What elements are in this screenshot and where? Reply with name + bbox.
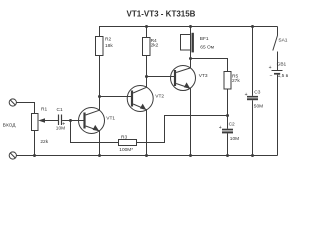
title [127, 9, 196, 18]
label VT3 [199, 73, 208, 79]
node ВХОД label [3, 123, 17, 129]
label C1 polarity + [62, 122, 65, 128]
switch SA1 [273, 27, 278, 71]
transistor VT2 [127, 56, 153, 156]
wire VT1 collector to VT2 base [100, 96, 132, 98]
svg-text:SA1: SA1 [278, 37, 287, 43]
svg-text:+: + [269, 65, 272, 71]
svg-text:1,5 в: 1,5 в [278, 73, 289, 79]
wire bias branch down to R3 [71, 121, 119, 143]
label C2 [229, 122, 235, 128]
wire bottom ground rail [16, 155, 277, 157]
resistor R1 (potentiometer) [32, 114, 59, 156]
label C3 polarity + [245, 92, 248, 98]
svg-text:+: + [62, 122, 65, 128]
svg-text:22k: 22k [40, 139, 48, 145]
label C3 [254, 89, 260, 95]
node ground rail junction VT1 emitter [98, 154, 101, 157]
label R5 [232, 74, 238, 80]
resistor R2 [96, 27, 104, 97]
svg-text:VT1-VT3 - KT315B: VT1-VT3 - KT315B [127, 9, 196, 18]
node ground rail junction C3 [251, 154, 254, 157]
svg-text:18k: 18k [105, 43, 113, 49]
svg-text:C3: C3 [254, 89, 260, 95]
svg-text:ВХОД: ВХОД [3, 123, 17, 129]
svg-text:VT2: VT2 [155, 94, 164, 100]
label C1 [57, 107, 63, 113]
svg-text:C1: C1 [57, 107, 63, 113]
node R5 / C2 / R3 feedback junction [226, 114, 229, 117]
svg-text:2k2: 2k2 [151, 42, 159, 48]
svg-text:+: + [245, 92, 248, 98]
node ground rail junction VT2 emitter [145, 154, 148, 157]
label GB1 [277, 61, 287, 67]
svg-text:10М: 10М [230, 136, 239, 142]
svg-text:65 Ом: 65 Ом [200, 45, 214, 51]
resistor R5 [224, 72, 231, 116]
node ground rail junction R1 [33, 154, 36, 157]
label 100М* [119, 147, 133, 153]
node VT2 collector / VT3 base junction [145, 75, 148, 78]
resistor R3 [119, 140, 137, 146]
label VT2 [155, 94, 164, 100]
svg-text:R2: R2 [105, 37, 111, 43]
wire C1 to VT1 base [62, 120, 83, 122]
battery GB1 [272, 71, 283, 156]
label 10М [56, 125, 65, 131]
svg-text:+: + [219, 125, 222, 131]
label R3 [121, 135, 127, 141]
svg-text:BF1: BF1 [200, 36, 209, 42]
label 22k [40, 139, 48, 145]
label VT1 [106, 116, 115, 122]
resistor R4 [143, 27, 151, 56]
label BF1 [200, 36, 209, 42]
svg-text:C2: C2 [229, 122, 235, 128]
node VT1 collector / VT2 base junction [98, 95, 101, 98]
svg-text:VT3: VT3 [199, 73, 208, 79]
label 2k2 [151, 42, 159, 48]
wire C3 branch from top rail [252, 27, 254, 96]
input terminal bottom [9, 152, 16, 159]
svg-text:−: − [270, 73, 273, 79]
wire R3 right to feedback node [137, 116, 228, 143]
label 27k [232, 78, 240, 84]
label 18k [105, 43, 113, 49]
label R2 [105, 37, 111, 43]
label SA1 [278, 37, 287, 43]
transistor VT3 [171, 59, 196, 156]
label C2 polarity + [219, 125, 222, 131]
label 65 Ом [200, 45, 214, 51]
node ground rail junction VT3 emitter [189, 154, 192, 157]
input terminal top [9, 99, 16, 106]
node R4 top rail junction [145, 25, 148, 28]
wire VT3 collector to R5 [191, 59, 228, 72]
svg-text:VT1: VT1 [106, 116, 115, 122]
transistor VT1 [79, 97, 105, 156]
node ground rail junction C2 [226, 154, 229, 157]
node VT3 collector junction [189, 57, 192, 60]
node C3 top rail junction [251, 25, 254, 28]
svg-text:27k: 27k [232, 78, 240, 84]
capacitor C2 [222, 116, 233, 156]
label 1,5 в [278, 73, 289, 79]
wire VT2 collector to VT3 base [147, 76, 175, 78]
node BF1 top rail junction [189, 25, 192, 28]
node base bias junction [69, 119, 72, 122]
wire top supply rail [99, 26, 278, 28]
wire input top to R1 [16, 103, 34, 114]
capacitor C3 [247, 96, 258, 156]
svg-text:GB1: GB1 [277, 61, 287, 67]
svg-text:100М*: 100М* [119, 147, 133, 153]
svg-text:R3: R3 [121, 135, 127, 141]
label GB1 polarity + [269, 65, 272, 71]
svg-text:50М: 50М [254, 104, 263, 110]
svg-text:R1: R1 [41, 107, 47, 113]
label GB1 polarity - [270, 73, 273, 79]
label 10М [230, 136, 239, 142]
capacitor C1 [59, 115, 62, 126]
earphone BF1 [181, 27, 194, 59]
label 50М [254, 104, 263, 110]
label R1 [41, 107, 47, 113]
label R4 [151, 38, 157, 44]
